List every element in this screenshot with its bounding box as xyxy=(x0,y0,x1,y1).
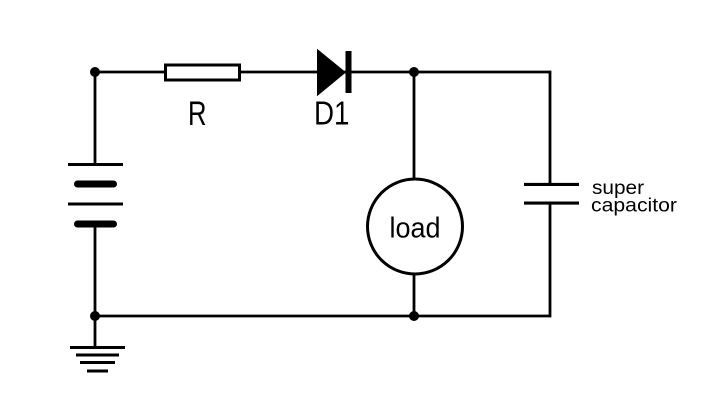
svg-text:D1: D1 xyxy=(314,95,350,132)
svg-text:R: R xyxy=(188,95,207,133)
load (motor/lamp circle) xyxy=(368,179,463,274)
ground xyxy=(70,348,125,372)
wire: bottom rail from node C to bottom-right corner xyxy=(95,315,550,318)
node D (junction dot, bottom-middle) xyxy=(409,311,419,321)
svg-text:load: load xyxy=(390,213,441,245)
label super capacitor xyxy=(591,178,678,217)
resistor R xyxy=(166,65,240,80)
wire: load circle down to node D xyxy=(413,273,416,316)
battery B1 xyxy=(68,165,123,225)
node C (junction dot, bottom-left) xyxy=(90,311,100,321)
wire: supercapacitor bottom plate down to bottom rail xyxy=(549,203,552,317)
wire: top rail from node A to top-right corner xyxy=(95,71,550,74)
wire: right branch down to supercapacitor top plate xyxy=(549,71,552,185)
capacitor C1 (super capacitor) xyxy=(524,184,579,203)
node A (junction dot, top-left) xyxy=(90,67,100,77)
wire: node B down to load circle xyxy=(413,72,416,180)
svg-text:capacitor: capacitor xyxy=(591,195,678,216)
wire: node A down to battery top plate xyxy=(94,72,97,165)
wire: battery bottom plate down through node C to ground xyxy=(94,224,97,348)
node B (junction dot, top-middle) xyxy=(409,67,419,77)
diode D1 xyxy=(317,49,352,96)
